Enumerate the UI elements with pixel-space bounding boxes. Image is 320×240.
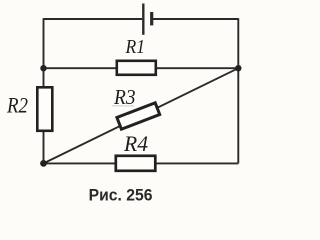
svg-text:R4: R4: [123, 131, 148, 156]
svg-text:R2: R2: [6, 93, 28, 118]
svg-text:Рис. 256: Рис. 256: [89, 187, 153, 205]
svg-text:R1: R1: [125, 36, 145, 58]
svg-text:R3: R3: [113, 85, 135, 109]
